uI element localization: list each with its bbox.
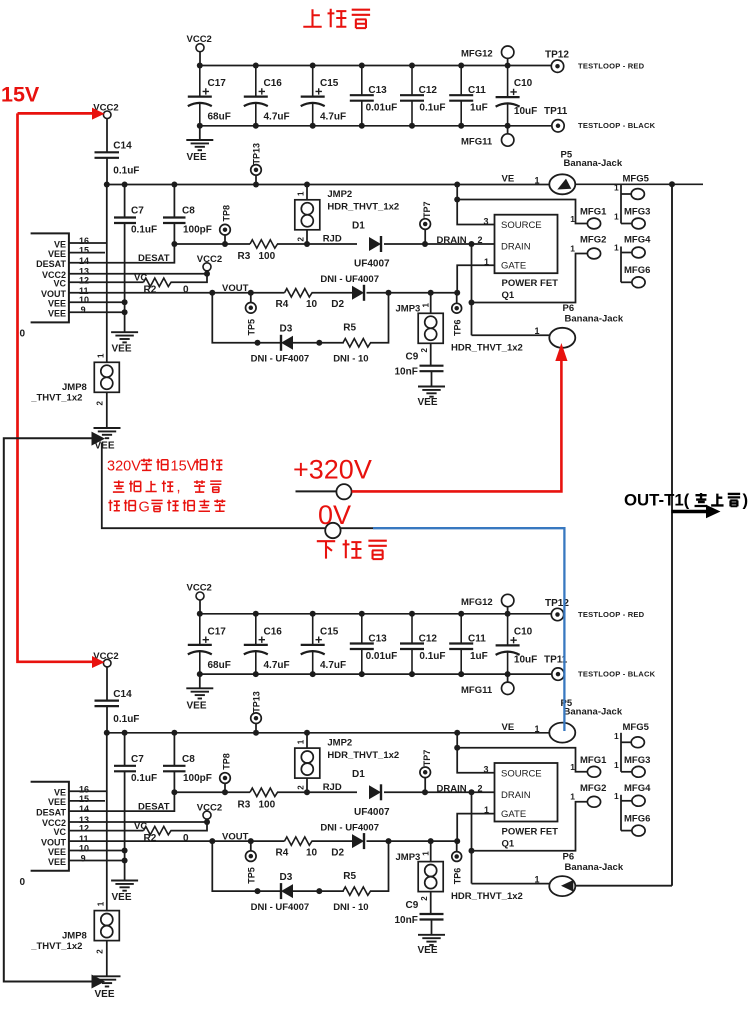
- node 0V with terminal circle: [325, 523, 340, 538]
- arrowhead into upper VEE ground: [92, 432, 106, 446]
- resistor R5 DNI-10 (lower): [343, 887, 371, 895]
- test point TP5 (lower): [250, 841, 252, 851]
- svg-text:TP11: TP11: [544, 106, 568, 117]
- wire pin14 DESAT (upper): [69, 244, 174, 263]
- junction (upper): [197, 63, 203, 69]
- junction on VCC2 bus (lower): [171, 730, 177, 736]
- wire pin10 VEE (lower): [69, 850, 125, 852]
- svg-text:0V: 0V: [318, 500, 351, 530]
- svg-text:_THVT_1x2: _THVT_1x2: [30, 941, 82, 952]
- junction on VCC2 bus (upper): [454, 182, 460, 188]
- junction (lower): [310, 611, 316, 617]
- capacitor C8 (lower): [173, 733, 175, 766]
- svg-text:MFG6: MFG6: [624, 813, 650, 824]
- svg-text:2: 2: [297, 237, 306, 242]
- svg-text:Q1: Q1: [502, 290, 515, 301]
- wire pin15 VEE stub (lower): [69, 800, 105, 802]
- red arrowhead to upper VCC2: [92, 108, 105, 120]
- svg-text:DNI - 10: DNI - 10: [333, 902, 368, 913]
- wire VCC2 bus (lower): [107, 732, 550, 734]
- resistor R3 100 (lower): [250, 788, 278, 796]
- junction VEE pins (upper): [122, 299, 128, 305]
- svg-text:1: 1: [614, 731, 619, 741]
- svg-text:JMP8: JMP8: [62, 930, 87, 941]
- svg-text:DNI - 10: DNI - 10: [333, 354, 368, 365]
- connector P5 Banana-Jack (upper): [549, 174, 575, 194]
- diode D3 DNI-UF4007 (upper): [258, 342, 282, 344]
- test point TP11 (lower): [552, 668, 564, 680]
- lug MFG5 bracket (upper): [620, 185, 622, 224]
- svg-text:MFG4: MFG4: [624, 783, 651, 794]
- diode D1 UF4007 (upper): [369, 237, 381, 251]
- svg-text:DNI - UF4007: DNI - UF4007: [320, 822, 379, 833]
- svg-text:VE: VE: [54, 239, 66, 249]
- ground VEE (IC pins) (lower): [111, 880, 138, 882]
- svg-text:MFG1: MFG1: [580, 755, 607, 766]
- svg-text:MFG3: MFG3: [624, 207, 650, 218]
- test point TP6 (upper): [456, 293, 458, 304]
- svg-text:4.7uF: 4.7uF: [320, 112, 346, 123]
- svg-text:10: 10: [306, 299, 318, 310]
- svg-text:1: 1: [570, 214, 575, 224]
- junction (lower): [359, 611, 365, 617]
- wire +320V red to upper P6 output jack: [352, 361, 562, 491]
- svg-text:0.1uF: 0.1uF: [131, 773, 157, 784]
- ground VEE (cap bank) (upper): [199, 126, 201, 140]
- jumper JMP3 (lower): [430, 841, 432, 862]
- svg-text:1: 1: [97, 901, 106, 906]
- ground VEE (IC pins) (upper): [111, 331, 138, 333]
- svg-text:MFG6: MFG6: [624, 265, 650, 276]
- junction source/VE (upper): [454, 197, 460, 203]
- svg-text:HDR_THVT_1x2: HDR_THVT_1x2: [327, 202, 399, 213]
- junction drain (upper): [469, 300, 475, 306]
- wire D2 to gate node (upper): [367, 292, 458, 294]
- wire pin13 VCC2 (upper): [69, 273, 207, 275]
- wire ground link, left edge (VEE of both blocks): [4, 438, 92, 981]
- svg-text:VE: VE: [502, 722, 515, 733]
- wire drain to MFG2 (lower): [472, 802, 588, 851]
- svg-text:DESAT: DESAT: [36, 807, 66, 817]
- wire D3-R5 (upper): [293, 342, 344, 344]
- capacitor C8 (upper): [173, 185, 175, 218]
- capacitor C7 (lower): [124, 733, 126, 766]
- svg-text:JMP2: JMP2: [327, 189, 352, 200]
- svg-text:2: 2: [478, 783, 483, 793]
- IC U? gate driver box (lower): [31, 782, 69, 871]
- svg-text:MFG12: MFG12: [461, 49, 493, 60]
- svg-text:TESTLOOP - RED: TESTLOOP - RED: [578, 62, 645, 71]
- svg-text:DRAIN: DRAIN: [437, 783, 467, 794]
- svg-text:SOURCE: SOURCE: [501, 768, 542, 779]
- wire cap bank top bus (lower): [200, 613, 552, 615]
- svg-text:C9: C9: [406, 352, 419, 363]
- wire drain to P6 (upper): [472, 334, 550, 336]
- svg-text:10uF: 10uF: [514, 106, 537, 117]
- svg-text:VE: VE: [502, 174, 515, 185]
- connector P5 Banana-Jack (lower): [549, 723, 575, 743]
- junction on VCC2 bus (upper): [122, 182, 128, 188]
- svg-text:DNI - UF4007: DNI - UF4007: [320, 274, 379, 285]
- junction (upper): [458, 63, 464, 69]
- svg-text:Banana-Jack: Banana-Jack: [564, 158, 623, 169]
- svg-text:TP13: TP13: [252, 143, 262, 165]
- wire Q1 gate pin (upper): [457, 265, 494, 293]
- svg-text:VEE: VEE: [48, 299, 66, 309]
- svg-text:D2: D2: [331, 299, 344, 310]
- connector P6 Banana-Jack (upper): [549, 328, 575, 348]
- svg-text:HDR_THVT_1x2: HDR_THVT_1x2: [451, 343, 523, 354]
- svg-text:JMP2: JMP2: [327, 737, 352, 748]
- svg-text:R3: R3: [238, 251, 251, 262]
- capacitor C16 (upper): [255, 66, 257, 97]
- svg-text:10: 10: [306, 847, 318, 858]
- svg-text:VEE: VEE: [48, 309, 66, 319]
- svg-text:R2: R2: [144, 285, 157, 296]
- svg-text:0: 0: [20, 877, 26, 888]
- svg-text:C17: C17: [208, 78, 227, 89]
- svg-text:2: 2: [420, 896, 429, 901]
- wire VE to MFG1 (lower): [457, 748, 587, 772]
- junction (lower): [458, 611, 464, 617]
- svg-text:UF4007: UF4007: [354, 807, 390, 818]
- junction (upper): [310, 63, 316, 69]
- wire Q1 drain vertical (lower): [471, 792, 473, 883]
- diode D1 UF4007 (lower): [369, 785, 381, 799]
- svg-text:14: 14: [79, 804, 89, 814]
- svg-text:VEE: VEE: [112, 892, 132, 903]
- svg-text:10uF: 10uF: [514, 655, 537, 666]
- svg-text:C12: C12: [419, 633, 438, 644]
- svg-text:VCC2: VCC2: [197, 254, 222, 265]
- svg-text:GATE: GATE: [501, 261, 526, 272]
- svg-text:D2: D2: [331, 847, 344, 858]
- svg-text:C7: C7: [131, 206, 144, 217]
- wire VCC2 vertical to JMP8 (lower): [106, 733, 108, 911]
- wire R5 up to VOUT (upper): [370, 293, 389, 343]
- wire R4-D2 (upper): [312, 292, 353, 294]
- svg-text:UF4007: UF4007: [354, 259, 390, 270]
- wire VCC2 vertical to JMP8 (upper): [106, 185, 108, 363]
- svg-text:1uF: 1uF: [470, 651, 488, 662]
- svg-text:RJD: RJD: [323, 234, 342, 245]
- svg-text:TP6: TP6: [453, 319, 463, 336]
- wire pin11 VOUT (upper): [69, 292, 285, 294]
- junction VCC2 small (lower): [204, 819, 210, 825]
- junction (upper): [505, 63, 511, 69]
- svg-text:VEE: VEE: [48, 249, 66, 259]
- diode D2 DNI-UF4007 (lower): [352, 834, 364, 848]
- wire C7/VEE vertical (upper): [124, 223, 126, 332]
- svg-text:0.01uF: 0.01uF: [366, 651, 398, 662]
- svg-text:1: 1: [297, 191, 306, 196]
- junction drain (lower): [469, 848, 475, 854]
- svg-text:0: 0: [20, 329, 26, 340]
- svg-text:0.1uF: 0.1uF: [113, 714, 139, 725]
- svg-text:0: 0: [183, 833, 189, 844]
- svg-text:100pF: 100pF: [183, 773, 212, 784]
- svg-text:VC: VC: [53, 279, 66, 289]
- junction on VCC2 bus (upper): [253, 182, 259, 188]
- svg-text:D3: D3: [280, 872, 293, 883]
- svg-text:GATE: GATE: [501, 809, 526, 820]
- svg-text:10nF: 10nF: [395, 367, 418, 378]
- wire Q1 source pin (lower): [457, 733, 494, 773]
- banana plug arrow inside upper P5: [557, 179, 571, 190]
- svg-text:VEE: VEE: [112, 344, 132, 355]
- svg-text:9: 9: [81, 305, 86, 315]
- svg-text:DNI - UF4007: DNI - UF4007: [251, 354, 310, 365]
- svg-text:C11: C11: [468, 633, 486, 644]
- junction DESAT (upper): [171, 241, 177, 247]
- resistor R3 100 (upper): [250, 240, 278, 248]
- wire 0V blue to lower P5 (VE) jack: [373, 528, 564, 731]
- svg-text:TP7: TP7: [422, 201, 432, 218]
- resistor R4 10 (upper): [285, 289, 313, 297]
- title 上桥臂 (upper bridge arm, red): [303, 9, 321, 26]
- junction (lower): [253, 611, 259, 617]
- capacitor C14 (lower): [106, 667, 108, 701]
- capacitor C10 (upper): [507, 66, 509, 97]
- svg-text:VEE: VEE: [95, 989, 115, 1000]
- banana plug arrow inside lower P6: [561, 880, 573, 892]
- svg-text:Banana-Jack: Banana-Jack: [565, 314, 624, 325]
- svg-text:HDR_THVT_1x2: HDR_THVT_1x2: [451, 891, 523, 902]
- junction DESAT (lower): [171, 789, 177, 795]
- svg-text:P6: P6: [563, 303, 575, 314]
- FET module Q1 box (upper): [495, 215, 558, 274]
- wire Q1 source pin (upper): [457, 185, 494, 225]
- svg-text:POWER FET: POWER FET: [502, 826, 559, 837]
- svg-text:1: 1: [570, 762, 575, 772]
- svg-text:G: G: [139, 500, 150, 516]
- resistor R2 0 (lower): [144, 826, 172, 834]
- svg-text:1: 1: [97, 353, 106, 358]
- svg-text:10: 10: [79, 295, 89, 305]
- svg-text:14: 14: [79, 256, 89, 266]
- wire VE bus right extension (upper): [575, 183, 703, 185]
- svg-text:1: 1: [422, 851, 431, 856]
- svg-text:9: 9: [81, 854, 86, 864]
- svg-text:1: 1: [422, 303, 431, 308]
- svg-text:MFG2: MFG2: [580, 235, 606, 246]
- svg-text:TESTLOOP - BLACK: TESTLOOP - BLACK: [578, 669, 656, 678]
- svg-text:VEE: VEE: [187, 700, 207, 711]
- svg-text:R4: R4: [276, 847, 289, 858]
- svg-text:DNI - UF4007: DNI - UF4007: [251, 902, 310, 913]
- capacitor C11 (upper): [460, 66, 462, 96]
- jumper JMP8 (lower): [94, 911, 119, 941]
- wire pin16 VE to VCC2 bus (upper): [69, 242, 107, 244]
- capacitor C14 (upper): [106, 119, 108, 153]
- svg-text:MFG4: MFG4: [624, 235, 651, 246]
- svg-text:): ): [743, 491, 749, 510]
- svg-text:TP7: TP7: [422, 750, 432, 767]
- junction (upper): [409, 63, 415, 69]
- svg-text:VOUT: VOUT: [222, 832, 249, 843]
- svg-text:1: 1: [614, 760, 619, 770]
- svg-text:100: 100: [259, 251, 276, 262]
- svg-text:0.1uF: 0.1uF: [131, 225, 157, 236]
- FET module Q1 box (lower): [495, 763, 558, 822]
- svg-text:VE: VE: [54, 788, 66, 798]
- svg-text:1: 1: [535, 326, 540, 336]
- svg-text:VEE: VEE: [418, 945, 438, 956]
- svg-text:MFG2: MFG2: [580, 783, 606, 794]
- wire drain to P6 (lower): [472, 883, 550, 885]
- svg-text:100: 100: [259, 799, 276, 810]
- wire drain to MFG2 (upper): [472, 254, 588, 303]
- power flag VCC2 (VC node) (upper): [203, 263, 211, 271]
- wire DESAT net (lower): [174, 791, 250, 793]
- svg-text:R2: R2: [144, 833, 157, 844]
- capacitor C9 10nF (upper): [420, 365, 444, 367]
- mounting hole MFG11 (upper): [507, 126, 509, 134]
- junction on VCC2 bus (lower): [104, 730, 110, 736]
- lug MFG5 bracket (lower): [620, 733, 622, 772]
- svg-text:C10: C10: [514, 78, 533, 89]
- jumper JMP3 (upper): [430, 293, 432, 314]
- wire D3-R5 (lower): [293, 890, 344, 892]
- svg-text:100pF: 100pF: [183, 225, 212, 236]
- svg-text:D1: D1: [352, 769, 365, 780]
- IC U? gate driver box (upper): [31, 233, 69, 322]
- lug MFG4 bracket (upper): [620, 247, 622, 283]
- svg-text:OUT-T1(: OUT-T1(: [624, 491, 690, 510]
- wire VOUT branch down (upper): [212, 293, 258, 343]
- wire red rail down left side: [18, 113, 96, 661]
- svg-text:TP6: TP6: [453, 868, 463, 885]
- mounting hole MFG12 (lower): [507, 607, 509, 614]
- svg-text:TP8: TP8: [222, 205, 232, 222]
- svg-text:1: 1: [570, 243, 575, 253]
- junction on VCC2 bus (lower): [304, 730, 310, 736]
- svg-text:SOURCE: SOURCE: [501, 220, 542, 231]
- test point TP11 (upper): [552, 120, 564, 132]
- svg-text:C12: C12: [419, 85, 438, 96]
- svg-text:10nF: 10nF: [395, 915, 418, 926]
- svg-text:POWER FET: POWER FET: [502, 278, 559, 289]
- svg-text:TESTLOOP - BLACK: TESTLOOP - BLACK: [578, 121, 656, 130]
- svg-text:TP12: TP12: [545, 50, 569, 61]
- diode D2 DNI-UF4007 (upper): [352, 286, 364, 300]
- svg-text:68uF: 68uF: [208, 660, 231, 671]
- junction on VCC2 bus (lower): [454, 730, 460, 736]
- svg-text:TESTLOOP - RED: TESTLOOP - RED: [578, 610, 645, 619]
- capacitor C10 (lower): [507, 614, 509, 645]
- svg-text:VCC2: VCC2: [197, 802, 222, 813]
- wire pin16 VE to VCC2 bus (lower): [69, 790, 107, 792]
- svg-text:0.01uF: 0.01uF: [366, 103, 398, 114]
- svg-text:_THVT_1x2: _THVT_1x2: [30, 393, 82, 404]
- svg-text:DRAIN: DRAIN: [501, 790, 531, 801]
- ground VEE (JMP8) (upper): [94, 427, 121, 429]
- svg-text:16: 16: [79, 784, 89, 794]
- wire D2 to gate node (lower): [367, 840, 458, 842]
- jumper JMP2 (upper): [306, 185, 308, 200]
- test point TP13 (upper): [255, 175, 257, 185]
- svg-text:2: 2: [420, 348, 429, 353]
- red arrowhead at upper P6: [555, 343, 567, 361]
- wire VOUT branch down (lower): [212, 841, 258, 891]
- test point TP12 (upper): [551, 60, 563, 72]
- svg-text:0: 0: [183, 285, 189, 296]
- wire pin13 VCC2 (lower): [69, 821, 207, 823]
- junction on VCC2 bus (upper): [171, 182, 177, 188]
- svg-text:TP12: TP12: [545, 598, 569, 609]
- svg-text:1: 1: [297, 739, 306, 744]
- svg-text:0.1uF: 0.1uF: [419, 651, 445, 662]
- svg-text:JMP8: JMP8: [62, 382, 87, 393]
- svg-text:4.7uF: 4.7uF: [320, 660, 346, 671]
- wire cap bank bottom bus (lower): [200, 673, 552, 675]
- junction OUT bus: [669, 181, 675, 187]
- wire Q1 drain vertical (upper): [471, 244, 473, 335]
- wire pin15 VEE stub (upper): [69, 252, 105, 254]
- svg-text:0.1uF: 0.1uF: [419, 103, 445, 114]
- svg-text:VC: VC: [134, 821, 147, 832]
- svg-text:C16: C16: [264, 626, 283, 637]
- capacitor C12 (upper): [411, 66, 413, 96]
- svg-text:4.7uF: 4.7uF: [264, 112, 290, 123]
- wire 0V net to upper VEE ground: [102, 443, 326, 529]
- capacitor C15 (upper): [312, 66, 314, 97]
- svg-text:R3: R3: [238, 799, 251, 810]
- capacitor C9 10nF (lower): [420, 913, 444, 915]
- svg-text:C11: C11: [468, 85, 486, 96]
- svg-text:C8: C8: [182, 754, 195, 765]
- svg-text:+320V: +320V: [293, 455, 372, 485]
- capacitor C17 (upper): [199, 66, 201, 97]
- svg-text:C9: C9: [406, 900, 419, 911]
- junction (lower): [197, 611, 203, 617]
- svg-text:RJD: RJD: [323, 782, 342, 793]
- svg-text:2: 2: [478, 235, 483, 245]
- svg-text:DESAT: DESAT: [36, 259, 66, 269]
- junction VOUT (upper): [209, 290, 215, 296]
- svg-text:VC: VC: [134, 273, 147, 284]
- title 下桥臂 (lower bridge arm, red): [317, 541, 335, 558]
- svg-text:MFG5: MFG5: [623, 174, 650, 185]
- svg-text:R4: R4: [276, 299, 289, 310]
- test point TP5 (upper): [250, 293, 252, 303]
- junction on VCC2 bus (upper): [304, 182, 310, 188]
- jumper JMP2 (lower): [306, 733, 308, 748]
- capacitor C12 (lower): [411, 614, 413, 644]
- junction (lower): [409, 611, 415, 617]
- svg-text:1: 1: [614, 212, 619, 222]
- wire lower P6 to OUT bus: [575, 885, 672, 887]
- svg-text:MFG1: MFG1: [580, 207, 607, 218]
- capacitor C11 (lower): [460, 614, 462, 644]
- svg-text:12: 12: [79, 275, 89, 285]
- svg-text:C15: C15: [320, 78, 339, 89]
- ground VEE (JMP8) (lower): [94, 975, 121, 977]
- svg-text:2: 2: [96, 949, 105, 954]
- junction VOUT (lower): [209, 838, 215, 844]
- svg-text:JMP3: JMP3: [396, 304, 421, 315]
- svg-text:DRAIN: DRAIN: [437, 235, 467, 246]
- svg-text:1: 1: [614, 243, 619, 253]
- test point TP6 (lower): [456, 841, 458, 852]
- svg-text:C8: C8: [182, 206, 195, 217]
- svg-text:1: 1: [570, 792, 575, 802]
- wire cap bank top bus (upper): [200, 65, 552, 67]
- wire Q1 gate pin (lower): [457, 814, 494, 842]
- resistor R2 0 (upper): [144, 278, 172, 286]
- svg-text:Q1: Q1: [502, 838, 515, 849]
- junction source/VE (lower): [454, 745, 460, 751]
